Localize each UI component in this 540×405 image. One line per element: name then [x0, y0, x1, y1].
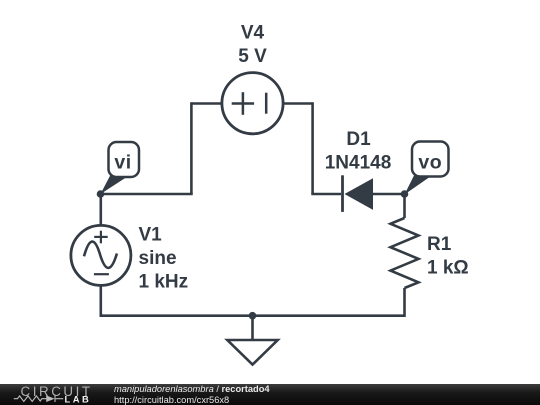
node vi flag	[101, 142, 140, 194]
diode D1	[343, 175, 374, 212]
svg-text:1N4148: 1N4148	[325, 152, 392, 173]
wire horizontal into vi node	[101, 193, 193, 196]
wire left vertical from V4 corner down to vi node	[190, 102, 193, 194]
CircuitLab logo	[0, 384, 100, 405]
wire bottom rail	[101, 314, 405, 317]
svg-text:R1: R1	[427, 234, 452, 255]
svg-text:vo: vo	[418, 152, 442, 174]
svg-text:5 V: 5 V	[238, 46, 267, 67]
wire ground stub	[251, 316, 254, 340]
resistor R1	[391, 218, 419, 288]
wire into diode anode-side (left of cathode bar)	[311, 193, 341, 196]
svg-text:V4: V4	[241, 23, 265, 44]
wire V4 right lead	[283, 102, 313, 105]
svg-text:1 kΩ: 1 kΩ	[427, 257, 469, 278]
junction dot vi	[97, 190, 105, 198]
svg-text:vi: vi	[114, 152, 131, 174]
footer bar	[0, 384, 540, 405]
wire right vertical from V4 corner down to diode row	[311, 102, 314, 194]
node vo flag	[405, 142, 449, 195]
wire V4 left lead to left corner	[191, 102, 222, 105]
wire R1 bottom lead	[403, 288, 406, 317]
wire diode to vo node	[373, 193, 405, 196]
svg-text:D1: D1	[346, 129, 371, 150]
wire vo node down to R1 top	[403, 194, 406, 218]
wire vi node down to V1 top	[100, 194, 103, 226]
junction dot vo	[401, 190, 409, 198]
wire V1 bottom lead	[100, 286, 103, 318]
svg-text:V1: V1	[139, 225, 163, 246]
svg-text:sine: sine	[139, 248, 177, 269]
svg-text:1 kHz: 1 kHz	[139, 272, 189, 293]
svg-text:LAB: LAB	[65, 393, 92, 404]
ground	[227, 340, 277, 365]
junction dot at ground tap	[249, 312, 257, 320]
voltage source V4 (circle with + and | )	[222, 73, 283, 134]
voltage source V1 (sine source)	[71, 225, 131, 285]
